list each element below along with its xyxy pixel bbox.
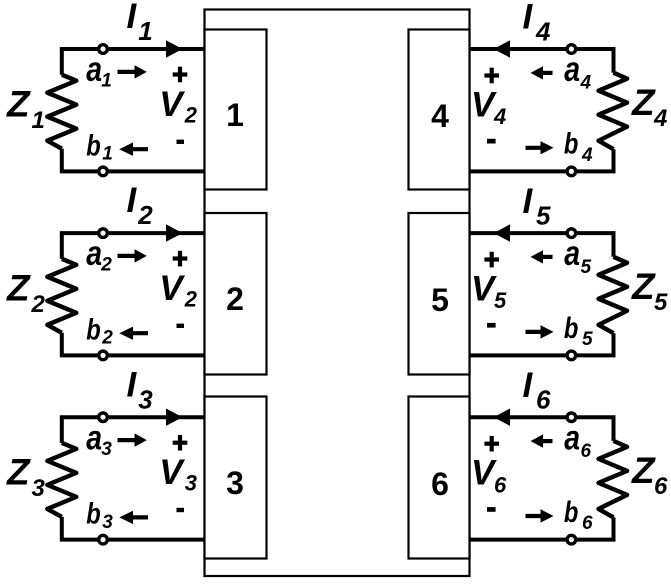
svg-text:5: 5 — [581, 257, 592, 278]
wave arrow b6 — [526, 509, 554, 522]
resistor Z6 — [599, 441, 628, 518]
plus sign port 5 — [484, 252, 499, 268]
wave arrow b2 — [119, 327, 148, 340]
current arrow I1 — [166, 40, 183, 58]
svg-text:Z: Z — [6, 452, 31, 493]
wave arrow a5 — [531, 250, 553, 263]
svg-text:Z: Z — [6, 268, 31, 309]
wave arrow b5 — [526, 325, 554, 339]
wave arrow a2 — [118, 249, 147, 262]
svg-text:4: 4 — [431, 98, 449, 134]
svg-text:5: 5 — [536, 201, 551, 231]
minus sign port 5 — [487, 323, 496, 328]
svg-text:1: 1 — [101, 71, 112, 92]
minus sign port 4 — [487, 139, 496, 144]
svg-text:V: V — [159, 453, 185, 492]
svg-text:a: a — [86, 418, 102, 457]
svg-text:4: 4 — [493, 104, 506, 129]
current arrow I6 — [494, 409, 510, 426]
svg-text:4: 4 — [580, 73, 592, 94]
svg-text:6: 6 — [494, 472, 507, 497]
svg-text:a: a — [564, 50, 580, 89]
svg-text:b: b — [564, 312, 579, 345]
minus sign port 2 — [177, 324, 185, 328]
wave arrow b3 — [119, 511, 148, 524]
svg-text:b: b — [86, 129, 101, 162]
wave arrow a3 — [118, 433, 147, 446]
terminal a5 — [567, 229, 576, 238]
svg-text:a: a — [564, 234, 580, 273]
minus sign port 1 — [177, 140, 185, 144]
wave arrow a1 — [118, 65, 147, 78]
wire port 2 loop — [62, 233, 205, 355]
resistor Z2 — [47, 259, 76, 333]
port box 2 — [205, 213, 267, 375]
svg-text:2: 2 — [31, 291, 46, 318]
svg-text:2: 2 — [100, 255, 112, 276]
terminal a4 — [567, 45, 576, 54]
svg-text:Z: Z — [631, 82, 656, 123]
current arrow I5 — [494, 224, 510, 242]
wire port 3 loop — [62, 417, 205, 539]
terminal b5 — [567, 351, 576, 360]
svg-text:I: I — [523, 0, 534, 37]
svg-text:2: 2 — [184, 286, 198, 311]
wire port 6 loop — [470, 417, 614, 539]
svg-text:V: V — [159, 269, 185, 308]
resistor Z1 — [47, 75, 76, 149]
svg-text:4: 4 — [535, 17, 551, 47]
svg-text:6: 6 — [536, 385, 551, 415]
svg-text:Z: Z — [6, 84, 31, 125]
wave arrow a6 — [531, 434, 553, 447]
terminal a1 — [99, 45, 108, 54]
port box 1 — [205, 30, 267, 190]
terminal a2 — [99, 229, 108, 238]
minus sign port 3 — [177, 508, 185, 512]
svg-text:5: 5 — [494, 288, 507, 313]
svg-text:3: 3 — [226, 465, 244, 501]
svg-text:1: 1 — [226, 97, 244, 133]
svg-text:5: 5 — [582, 329, 593, 350]
svg-text:4: 4 — [581, 145, 593, 166]
wire port 1 loop — [62, 49, 205, 171]
resistor Z5 — [599, 257, 628, 333]
svg-text:a: a — [86, 234, 102, 273]
resistor Z3 — [47, 443, 76, 517]
svg-text:a: a — [86, 50, 102, 89]
terminal a3 — [99, 413, 108, 422]
svg-text:b: b — [86, 498, 101, 531]
svg-text:I: I — [523, 182, 534, 221]
svg-text:I: I — [127, 0, 138, 36]
terminal b3 — [99, 535, 108, 544]
terminal b4 — [567, 167, 576, 176]
svg-text:3: 3 — [101, 439, 112, 460]
svg-text:1: 1 — [138, 16, 152, 46]
wave arrow b1 — [119, 142, 148, 156]
svg-text:b: b — [564, 128, 579, 161]
svg-text:6: 6 — [431, 466, 449, 502]
svg-text:I: I — [127, 181, 138, 220]
svg-text:6: 6 — [581, 441, 592, 462]
port box 4 — [409, 30, 470, 190]
port box 5 — [409, 213, 470, 375]
svg-text:b: b — [86, 314, 101, 347]
svg-text:3: 3 — [32, 475, 46, 502]
terminal b6 — [567, 535, 576, 544]
terminal b2 — [99, 351, 108, 360]
svg-text:5: 5 — [431, 282, 449, 318]
svg-text:1: 1 — [32, 107, 45, 134]
svg-text:6: 6 — [654, 473, 668, 500]
svg-text:I: I — [523, 366, 534, 405]
wave arrow b4 — [526, 141, 554, 154]
svg-text:6: 6 — [582, 513, 593, 534]
svg-text:I: I — [127, 365, 138, 404]
svg-text:1: 1 — [102, 144, 113, 165]
svg-text:3: 3 — [185, 471, 197, 496]
port box 6 — [409, 397, 470, 559]
wire port 4 loop — [470, 49, 614, 171]
wire port 5 loop — [470, 233, 614, 355]
current arrow I2 — [166, 224, 183, 242]
svg-text:2: 2 — [184, 102, 198, 127]
svg-text:4: 4 — [653, 105, 667, 132]
svg-text:3: 3 — [102, 512, 113, 533]
svg-text:3: 3 — [138, 384, 153, 414]
svg-text:2: 2 — [101, 328, 113, 349]
current arrow I4 — [494, 40, 510, 58]
minus sign port 6 — [487, 507, 496, 512]
current arrow I3 — [166, 409, 183, 426]
plus sign port 3 — [173, 435, 188, 451]
plus sign port 6 — [484, 436, 499, 452]
svg-text:V: V — [159, 85, 185, 124]
svg-text:b: b — [564, 496, 579, 529]
plus sign port 4 — [484, 68, 499, 84]
plus sign port 1 — [173, 67, 188, 83]
wave arrow a4 — [531, 66, 553, 79]
svg-text:5: 5 — [654, 289, 668, 316]
resistor Z4 — [599, 73, 628, 150]
svg-text:2: 2 — [137, 200, 153, 230]
port box 3 — [205, 397, 267, 559]
svg-text:2: 2 — [226, 281, 244, 317]
plus sign port 2 — [173, 251, 188, 267]
svg-text:Z: Z — [631, 266, 656, 307]
svg-text:Z: Z — [631, 450, 656, 491]
svg-text:a: a — [564, 418, 580, 457]
network box U1 — [205, 10, 470, 577]
terminal b1 — [99, 167, 108, 176]
terminal a6 — [567, 413, 576, 422]
